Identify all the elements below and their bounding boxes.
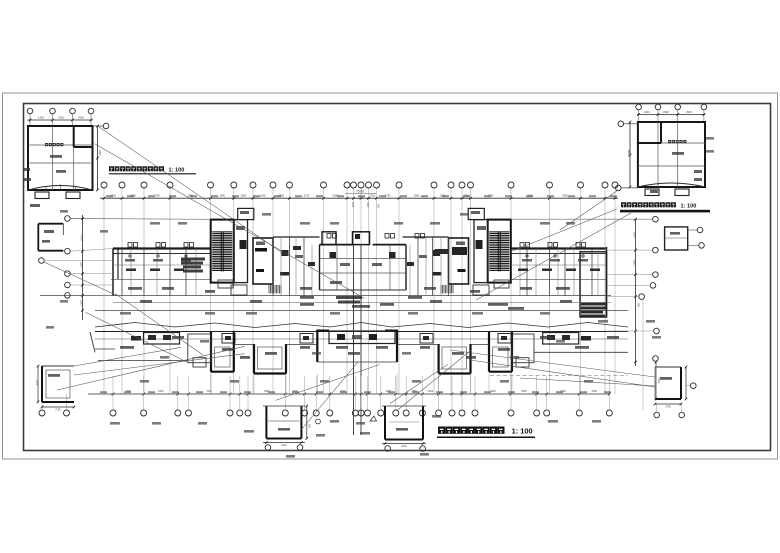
room left of stairwell 2 bbox=[474, 220, 488, 283]
svg-text:2580: 2580 bbox=[219, 195, 225, 198]
top-left detail: right vertical dimension bbox=[96, 125, 101, 192]
top-left detail: axis circles row bbox=[27, 108, 94, 126]
top-right detail: eave blocks below bbox=[645, 189, 689, 196]
svg-text:2700: 2700 bbox=[304, 195, 310, 198]
bay window U2 left bbox=[254, 344, 286, 374]
center annotation cluster bbox=[300, 296, 422, 308]
svg-text:3300: 3300 bbox=[428, 390, 434, 393]
right wing partition walls bbox=[520, 249, 598, 296]
lower band: upper edge line bbox=[95, 310, 628, 312]
top-right detail: room annotation text bbox=[650, 140, 702, 193]
svg-text:7440: 7440 bbox=[80, 235, 83, 241]
svg-text:3300: 3300 bbox=[370, 195, 376, 198]
stairwell 1 treads hatch bbox=[212, 232, 232, 272]
building: horizontal line y302 bbox=[113, 302, 611, 304]
svg-text:1: 100: 1: 100 bbox=[681, 204, 697, 210]
stairwell 2 treads hatch bbox=[489, 232, 509, 272]
dimension number dashes row bbox=[100, 195, 617, 393]
top-left detail: machine room outline bbox=[28, 126, 93, 190]
svg-text:2240: 2240 bbox=[281, 444, 287, 447]
lower band: eave lines bbox=[95, 332, 628, 340]
svg-text:4750: 4750 bbox=[154, 195, 160, 198]
svg-text:2580: 2580 bbox=[562, 195, 568, 198]
right end block with annotation text bbox=[580, 252, 607, 318]
duct room right wing bbox=[449, 238, 469, 284]
svg-text:2040: 2040 bbox=[351, 202, 353, 208]
top-left detail: top dimension line bbox=[28, 116, 93, 122]
level triangle mark bbox=[316, 416, 377, 424]
step box left of U1 bbox=[188, 334, 211, 367]
top-right detail: left vertical dimension bbox=[627, 121, 631, 189]
top-left detail: right leader circle bbox=[93, 123, 109, 129]
lower band: connecting bottom edges bbox=[90, 332, 628, 376]
svg-text:3300: 3300 bbox=[663, 110, 669, 114]
svg-text:3300: 3300 bbox=[592, 390, 598, 393]
svg-text:3500: 3500 bbox=[657, 378, 659, 384]
svg-text:2580: 2580 bbox=[521, 390, 527, 393]
right end building leader circle bbox=[607, 300, 660, 410]
svg-text:2700: 2700 bbox=[55, 409, 61, 412]
top-left detail: eave blocks below bbox=[35, 192, 80, 199]
balcony box right end bbox=[543, 333, 591, 345]
bay window U1 right bbox=[489, 332, 512, 372]
svg-text:2040: 2040 bbox=[260, 195, 266, 198]
top-right detail: top dimension line bbox=[637, 110, 705, 116]
svg-text:1440: 1440 bbox=[366, 202, 368, 208]
svg-text:2400: 2400 bbox=[401, 445, 407, 448]
small box above room right of stair 1 bbox=[238, 208, 254, 219]
small boxes along eave band bbox=[222, 334, 511, 344]
boxes below stairwell 1 bbox=[218, 280, 509, 295]
building: wing interior lines bbox=[111, 265, 606, 279]
title: top-right detail title bbox=[620, 202, 710, 212]
main plan: bottom axis circles row bbox=[39, 394, 612, 416]
svg-text:6600: 6600 bbox=[627, 150, 630, 156]
small box above room left of stair 2 bbox=[468, 208, 484, 219]
right wing roof drain marks bbox=[522, 255, 588, 262]
main plan: overall dimension text bbox=[345, 190, 376, 194]
left wing roof drain marks bbox=[125, 255, 191, 262]
top-left detail: left tiny marks bbox=[24, 168, 40, 207]
center core elevator shaft boxes bbox=[322, 232, 370, 435]
left bottom detail D3 bbox=[35, 365, 75, 412]
upper band annotation smudges bbox=[128, 287, 572, 310]
main plan: vertical grid extension lines bbox=[104, 188, 615, 394]
bottom detail D1: drain pan bbox=[263, 405, 310, 451]
top-left detail: room annotation text bbox=[45, 143, 66, 173]
top-right detail: roof drain slope arc bbox=[638, 183, 705, 187]
svg-text:3300: 3300 bbox=[80, 262, 83, 268]
right vertical dimension band bbox=[633, 218, 640, 366]
stairwell 1 box bbox=[211, 220, 234, 283]
left side axis circles column bbox=[39, 216, 211, 299]
svg-text:3300: 3300 bbox=[633, 232, 636, 238]
building: horizontal line y295 bbox=[40, 295, 611, 297]
title: main bottom title bbox=[437, 427, 535, 438]
left vertical dimension band bbox=[80, 215, 84, 320]
bottom extension lines from building to dim line bbox=[113, 374, 609, 394]
title: top-left detail title bbox=[109, 166, 196, 174]
stairwell 2 box bbox=[488, 220, 511, 283]
right bottom detail D4 bbox=[654, 366, 696, 418]
svg-text:3300: 3300 bbox=[58, 116, 64, 120]
lower band: ridge polyline bbox=[95, 323, 628, 328]
left wing partition walls bbox=[122, 249, 196, 296]
main plan: bottom dimension line bbox=[88, 390, 611, 395]
right wing fixtures bbox=[419, 250, 442, 276]
right side axis circles column bbox=[511, 216, 658, 299]
main plan: top axis circles row bbox=[101, 182, 618, 188]
bottom detail D2: drain pan bbox=[382, 406, 426, 451]
top-right detail: machine room outline bbox=[638, 122, 705, 187]
left wing fixtures bbox=[280, 250, 303, 276]
lower band annotation smudges bbox=[120, 336, 619, 359]
svg-text:3300: 3300 bbox=[490, 390, 496, 393]
svg-text:2240: 2240 bbox=[644, 110, 650, 114]
svg-text:2900: 2900 bbox=[78, 116, 84, 120]
left wing louver grille bbox=[269, 285, 281, 294]
svg-text:900: 900 bbox=[637, 303, 640, 308]
left wing vent pairs above roof edge bbox=[128, 243, 194, 248]
right wing louver grille bbox=[441, 285, 453, 294]
top-right detail: left leader circles bbox=[616, 121, 638, 191]
svg-text:1750: 1750 bbox=[665, 406, 671, 409]
outer sheet border bbox=[3, 93, 778, 459]
svg-text:1: 100: 1: 100 bbox=[169, 168, 185, 174]
svg-text:75.60: 75.60 bbox=[356, 190, 364, 194]
center balcony with rail marks bbox=[317, 330, 397, 362]
svg-text:3300: 3300 bbox=[98, 150, 101, 156]
mid rooms right of center core bbox=[403, 237, 468, 296]
step box right of U1-right bbox=[512, 334, 534, 367]
mid rooms left of center core bbox=[273, 237, 320, 296]
center core fixtures bbox=[330, 252, 396, 284]
building: right wing roof top edge and right wall bbox=[511, 247, 607, 317]
svg-text:3300: 3300 bbox=[35, 380, 37, 386]
duct room left wing bbox=[253, 238, 273, 284]
svg-text:2580: 2580 bbox=[633, 260, 636, 266]
vent marks on center core top bbox=[327, 234, 425, 239]
top-right detail: axis circles row bbox=[636, 104, 707, 122]
svg-text:2900: 2900 bbox=[686, 110, 692, 114]
svg-text:2580: 2580 bbox=[241, 195, 247, 198]
bay window U1 left bbox=[211, 332, 234, 372]
top-left detail: roof drain slope arc bbox=[28, 184, 93, 190]
top-right detail: inner thick wall step bbox=[638, 122, 661, 143]
main plan: top dimension line bbox=[100, 195, 618, 200]
left wing annotation cluster bbox=[181, 258, 205, 273]
bay window U2 right bbox=[439, 344, 471, 374]
right wing vent pairs above roof edge bbox=[520, 243, 586, 248]
right small detail box bbox=[665, 227, 705, 250]
svg-text:1400: 1400 bbox=[38, 116, 44, 120]
balcony box left end bbox=[131, 333, 180, 345]
inner sheet border bbox=[24, 104, 771, 451]
svg-text:3300: 3300 bbox=[207, 390, 213, 393]
main plan: rotated dim texts near center verticals bbox=[351, 202, 379, 209]
scattered annotation smudges bbox=[46, 137, 714, 458]
room right of stairwell 1 bbox=[234, 220, 248, 283]
svg-text:3300: 3300 bbox=[158, 390, 164, 393]
top-left detail: inner thick wall step bbox=[74, 126, 93, 147]
building: left wing roof top edge and left wall bbox=[113, 249, 211, 296]
wing interior drain dashes bbox=[126, 269, 600, 272]
svg-text:1: 100: 1: 100 bbox=[512, 427, 533, 436]
svg-text:2580: 2580 bbox=[414, 195, 420, 198]
leader lines from details and titles to plan bbox=[44, 125, 655, 430]
building: left end unit box bbox=[38, 224, 63, 251]
svg-text:1500: 1500 bbox=[80, 300, 83, 306]
center core block outline bbox=[320, 245, 407, 290]
